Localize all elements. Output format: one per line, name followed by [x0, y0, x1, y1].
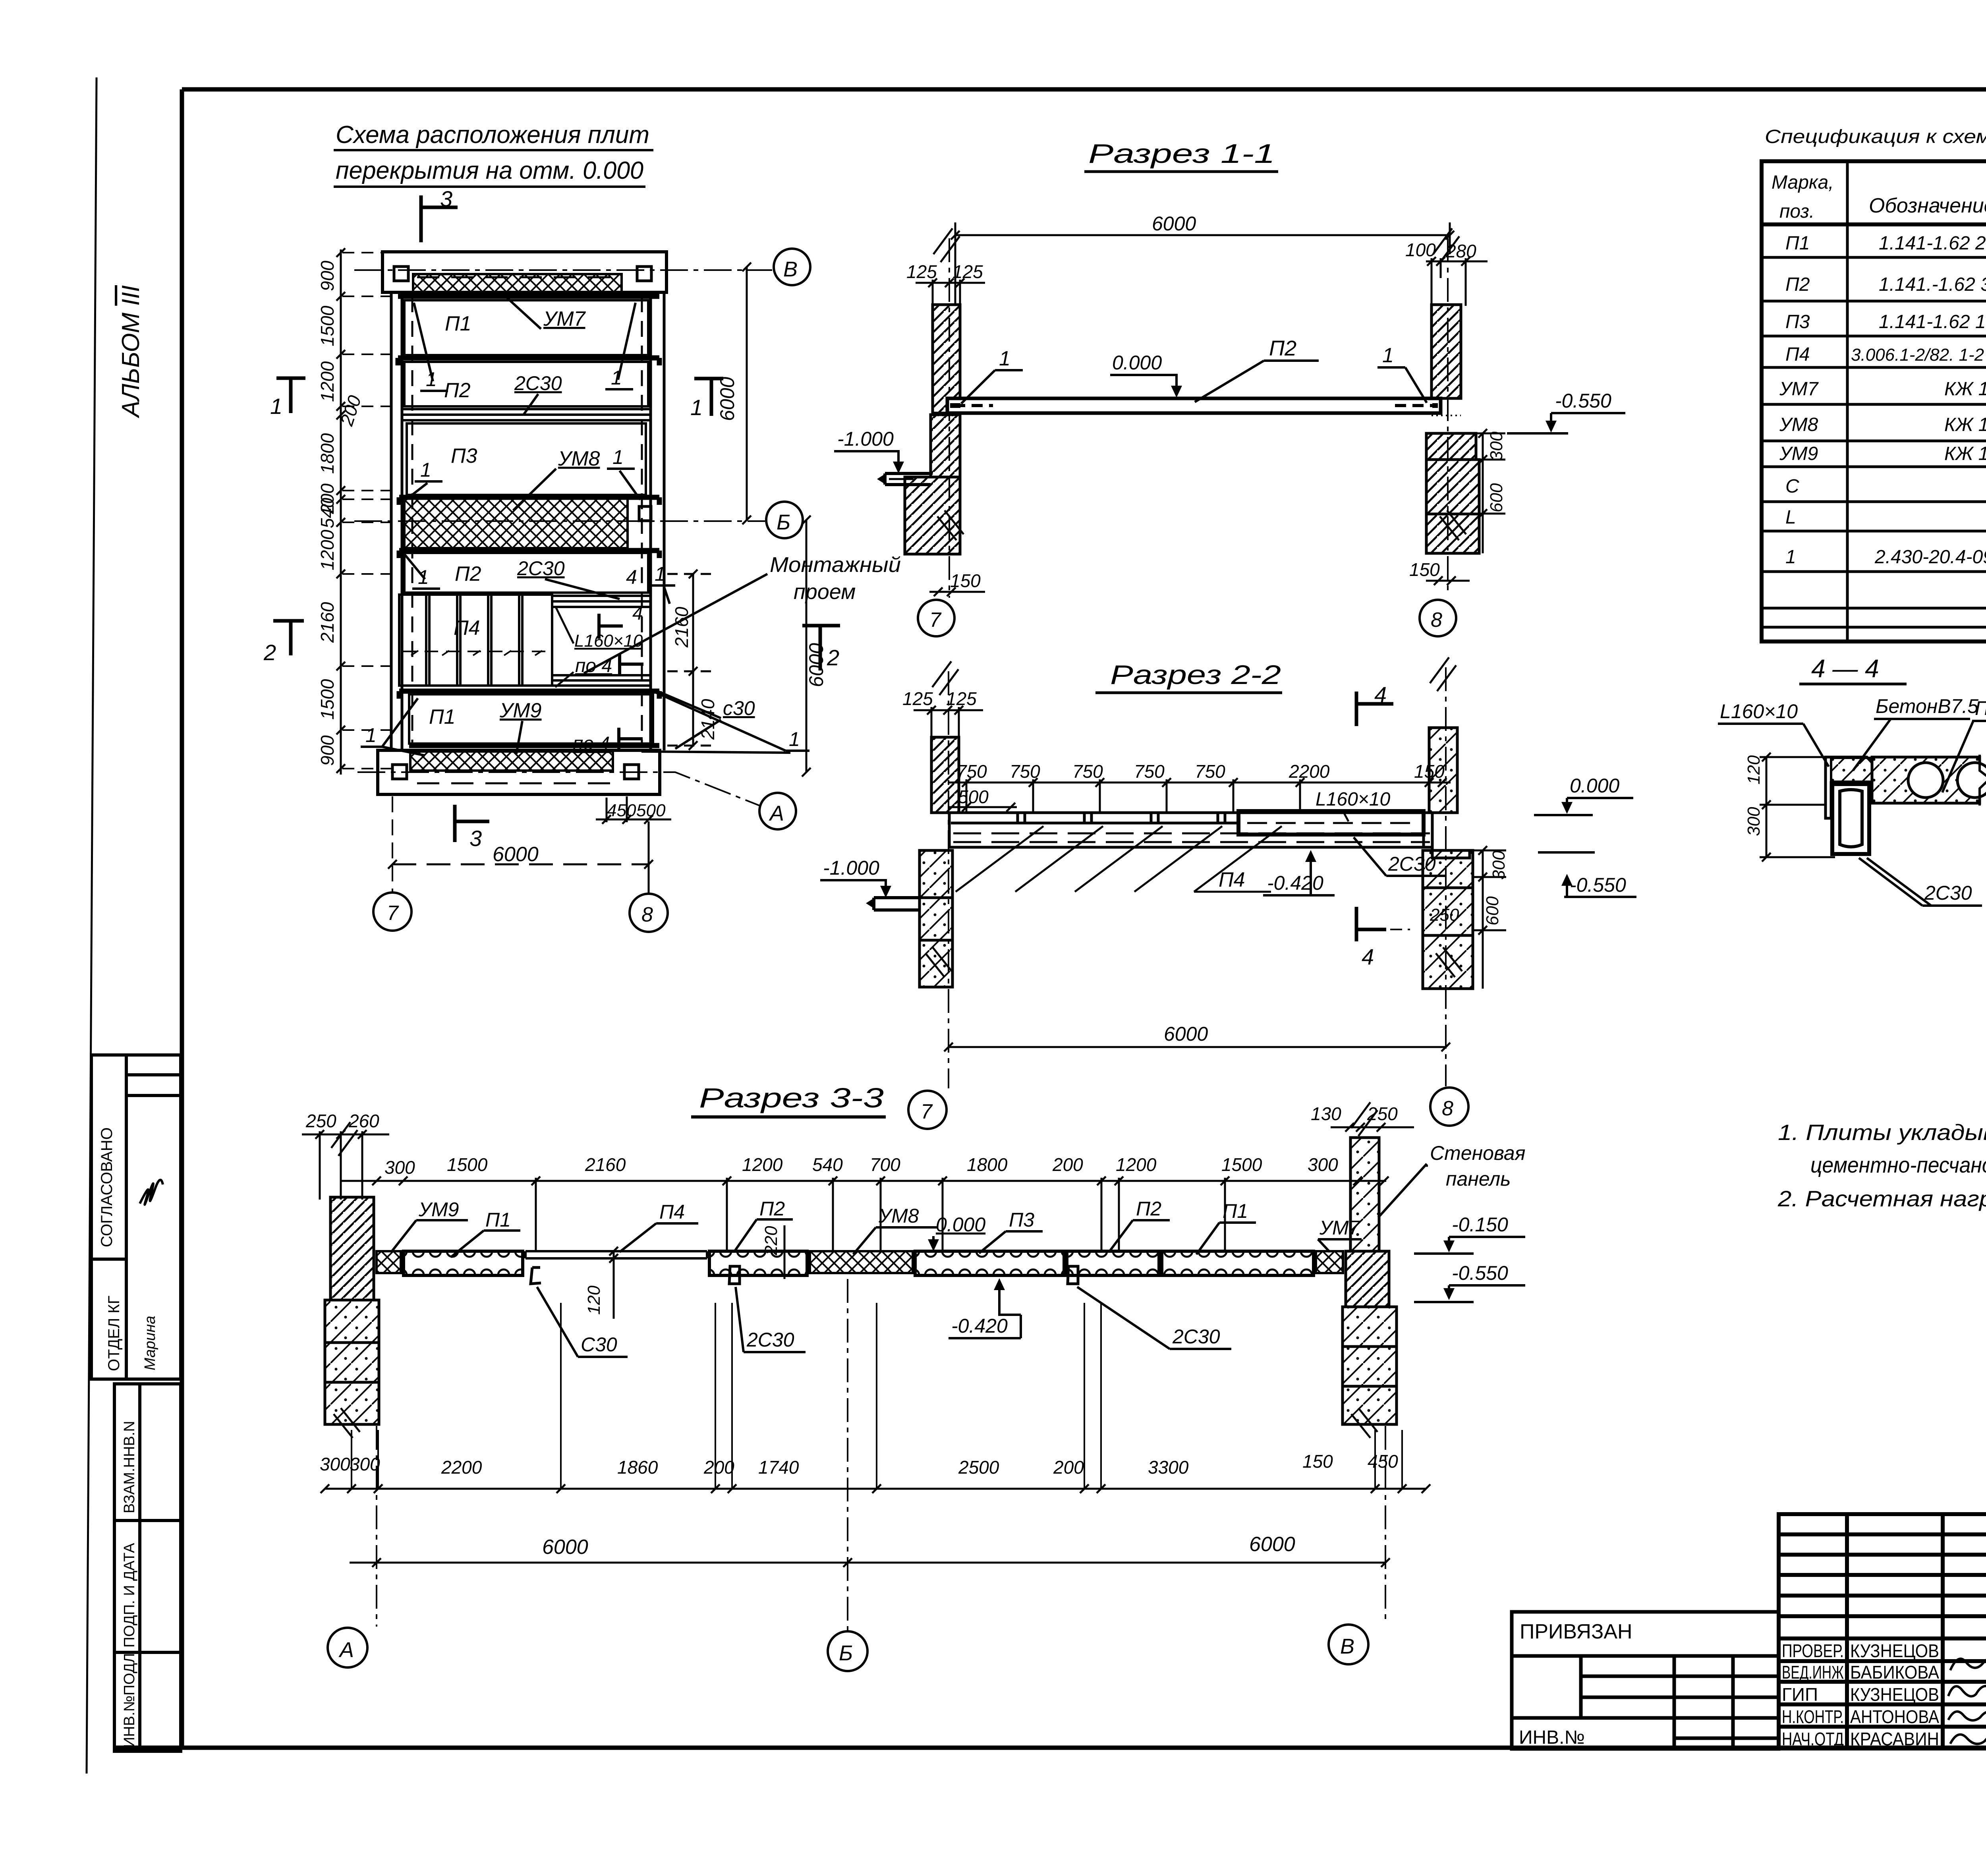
- sheet outer edge: [87, 77, 97, 1774]
- svg-text:КУЗНЕЦОВ: КУЗНЕЦОВ: [1850, 1684, 1939, 1705]
- axis circle B(Б): [828, 1631, 867, 1671]
- svg-text:ПОДП. И ДАТА: ПОДП. И ДАТА: [121, 1543, 138, 1648]
- svg-text:7: 7: [387, 902, 399, 925]
- svg-text:4: 4: [1374, 682, 1387, 707]
- L160 zone right: [1238, 811, 1424, 835]
- svg-text:П2: П2: [444, 379, 471, 402]
- svg-text:6000: 6000: [805, 643, 827, 687]
- svg-text:П1: П1: [429, 705, 456, 728]
- right foundation blocks: [1343, 1307, 1397, 1347]
- svg-text:4: 4: [632, 603, 643, 624]
- svg-text:1: 1: [365, 724, 377, 746]
- svg-text:УМ8: УМ8: [1779, 414, 1818, 435]
- svg-text:260: 260: [348, 1111, 379, 1131]
- right foundation blocks: [1426, 433, 1476, 460]
- svg-text:НАЧ.ОТД: НАЧ.ОТД: [1782, 1729, 1844, 1749]
- svg-text:540: 540: [317, 498, 338, 528]
- plate P2 outline: [404, 362, 648, 406]
- svg-text:8: 8: [641, 903, 653, 926]
- svg-text:300: 300: [1744, 807, 1764, 836]
- left foundation blocks: [920, 850, 952, 898]
- left wall upper: [931, 737, 959, 813]
- UM7 hatch strip: [413, 274, 622, 294]
- svg-text:4: 4: [626, 566, 637, 588]
- svg-text:УМ9: УМ9: [418, 1198, 459, 1221]
- dim chain 750s: [956, 761, 1445, 807]
- svg-text:1740: 1740: [758, 1457, 799, 1478]
- left wall centerline: [949, 238, 950, 598]
- plate P3 outline: [407, 423, 646, 495]
- svg-text:ИНВ.№: ИНВ.№: [1519, 1727, 1585, 1748]
- svg-text:150: 150: [1302, 1451, 1333, 1472]
- left wall panel: [330, 1197, 374, 1300]
- svg-text:300: 300: [350, 1454, 380, 1474]
- svg-text:2С30: 2С30: [746, 1329, 794, 1351]
- svg-text:П1: П1: [485, 1209, 511, 1231]
- svg-text:А: А: [338, 1638, 354, 1662]
- 4 mark top right: [597, 613, 598, 614]
- svg-text:перекрытия на отм. 0.000: перекрытия на отм. 0.000: [336, 157, 643, 184]
- svg-text:2С30: 2С30: [514, 372, 562, 394]
- svg-text:П1: П1: [1785, 233, 1810, 254]
- svg-text:150: 150: [1409, 559, 1440, 580]
- svg-text:КУЗНЕЦОВ: КУЗНЕЦОВ: [1850, 1640, 1939, 1661]
- svg-text:4: 4: [1362, 944, 1374, 969]
- svg-text:600: 600: [1483, 896, 1502, 925]
- svg-text:-0.420: -0.420: [1267, 872, 1323, 894]
- witness lines to bottom dims: [352, 1303, 1402, 1489]
- axis circle V(В): [774, 249, 810, 285]
- bottom dim chain: [320, 1451, 1398, 1478]
- svg-text:6000: 6000: [1152, 213, 1196, 235]
- svg-text:П2: П2: [1136, 1198, 1161, 1220]
- svg-text:1500: 1500: [1221, 1154, 1262, 1175]
- svg-text:1: 1: [655, 563, 666, 585]
- svg-text:1.141.-1.62 3000-01: 1.141.-1.62 3000-01: [1879, 274, 1986, 295]
- svg-text:Стеновая: Стеновая: [1430, 1142, 1525, 1164]
- svg-text:7: 7: [929, 609, 942, 632]
- spec table grid: [1762, 161, 1986, 641]
- album text: [117, 285, 145, 419]
- svg-text:1.141-1.62 2000-01: 1.141-1.62 2000-01: [1879, 233, 1986, 254]
- svg-text:3.006.1-2/82. 1-2 -1.0-060: 3.006.1-2/82. 1-2 -1.0-060: [1851, 345, 1986, 365]
- plate P3: [915, 1251, 1064, 1275]
- svg-text:П1: П1: [445, 312, 471, 335]
- channel symbol 2C30 mid: [729, 1266, 740, 1284]
- svg-text:750: 750: [956, 761, 987, 782]
- svg-text:2160: 2160: [317, 602, 338, 643]
- svg-text:1: 1: [612, 446, 624, 468]
- svg-text:Обозначение: Обозначение: [1869, 194, 1986, 217]
- axis circle 8: [1420, 600, 1456, 636]
- svg-text:220: 220: [761, 1226, 781, 1256]
- svg-text:-1.000: -1.000: [837, 428, 894, 450]
- svg-text:по 4: по 4: [573, 733, 610, 754]
- svg-text:В: В: [1340, 1634, 1354, 1658]
- svg-text:1: 1: [1382, 344, 1394, 367]
- svg-text:1: 1: [999, 347, 1010, 370]
- left foundation blocks: [931, 415, 960, 477]
- svg-text:по 4: по 4: [575, 655, 612, 676]
- svg-text:П4: П4: [1219, 868, 1245, 891]
- svg-text:450: 450: [1368, 1451, 1398, 1472]
- svg-text:С: С: [1785, 476, 1799, 497]
- privyazan annex: [1512, 1612, 1779, 1749]
- svg-text:Схема расположения плит: Схема расположения плит: [336, 121, 649, 149]
- level 0.000 arrow: [932, 1236, 935, 1248]
- svg-text:540: 540: [812, 1154, 843, 1175]
- svg-text:0.000: 0.000: [1112, 352, 1162, 374]
- right dim 2160 2140: [667, 570, 711, 750]
- angle L160x10 outline: [1826, 757, 1872, 818]
- svg-text:120: 120: [1744, 755, 1764, 784]
- svg-text:100: 100: [1405, 240, 1436, 260]
- svg-text:2200: 2200: [441, 1457, 482, 1478]
- svg-text:П4: П4: [454, 616, 480, 640]
- svg-text:1. Плиты укладывать по свежеу: 1. Плиты укладывать по свежеуложенному: [1778, 1120, 1986, 1145]
- svg-text:1.141-1.62 1000-01: 1.141-1.62 1000-01: [1879, 311, 1986, 332]
- svg-text:0.000: 0.000: [936, 1213, 985, 1236]
- plate P1 with cores: [404, 1251, 523, 1275]
- svg-text:панель: панель: [1446, 1168, 1511, 1190]
- svg-text:КРАСАВИН: КРАСАВИН: [1850, 1729, 1939, 1749]
- svg-text:1800: 1800: [967, 1154, 1008, 1175]
- svg-text:КЖ 15: КЖ 15: [1944, 443, 1986, 464]
- svg-text:750: 750: [1072, 761, 1103, 782]
- svg-text:300: 300: [320, 1454, 350, 1474]
- svg-text:А: А: [769, 802, 784, 825]
- svg-text:-0.420: -0.420: [951, 1315, 1008, 1337]
- axis circle A: [328, 1628, 367, 1667]
- svg-text:6000: 6000: [542, 1536, 588, 1559]
- UM7 hatch: [1316, 1251, 1343, 1273]
- svg-text:6000: 6000: [1249, 1533, 1295, 1556]
- svg-text:1200: 1200: [1116, 1154, 1157, 1175]
- dims 300 600 right: [1473, 846, 1506, 989]
- svg-text:3300: 3300: [1148, 1457, 1189, 1478]
- svg-text:1: 1: [420, 459, 431, 481]
- svg-text:П3: П3: [451, 444, 477, 468]
- svg-text:250: 250: [1430, 905, 1459, 925]
- svg-text:1500: 1500: [447, 1154, 488, 1175]
- svg-text:Разрез 1-1: Разрез 1-1: [1088, 139, 1275, 169]
- slab band with P4 planks: [949, 813, 1432, 847]
- main title block: [1779, 1514, 1986, 1748]
- channel 2C30 section: [1832, 784, 1869, 854]
- axis circle 7: [918, 600, 954, 636]
- svg-text:300: 300: [1487, 431, 1506, 461]
- svg-text:250: 250: [305, 1111, 336, 1131]
- P2 triple joint lines: [402, 409, 651, 420]
- svg-text:4 — 4: 4 — 4: [1811, 654, 1879, 683]
- svg-text:1200: 1200: [317, 361, 338, 402]
- svg-text:с30: с30: [723, 697, 755, 719]
- svg-text:1: 1: [1785, 547, 1796, 568]
- svg-text:8: 8: [1442, 1097, 1453, 1120]
- right wall below slab: [1346, 1251, 1389, 1307]
- mortar joint dots: [933, 415, 960, 416]
- UM8 hatch: [810, 1251, 913, 1273]
- dim 120/300 left: [1760, 753, 1835, 862]
- axis circle V(В): [1329, 1625, 1368, 1664]
- svg-text:Разрез 3-3: Разрез 3-3: [699, 1082, 884, 1113]
- svg-text:П2: П2: [759, 1198, 785, 1220]
- svg-text:2С30: 2С30: [1924, 882, 1972, 904]
- axis line B row: [354, 269, 772, 271]
- svg-text:1500: 1500: [317, 305, 338, 346]
- section marks 1 and 2 right: [694, 379, 723, 416]
- svg-text:750: 750: [1134, 761, 1165, 782]
- svg-text:П2: П2: [1785, 274, 1810, 295]
- svg-text:250: 250: [1367, 1103, 1398, 1124]
- svg-text:2. Расчетная нагрузка на пере: 2. Расчетная нагрузка на перекрытие 8кПа: [1777, 1186, 1986, 1211]
- svg-text:П2: П2: [455, 562, 481, 585]
- section marks 1 and 2 left: [276, 378, 305, 413]
- walls verticals: [391, 292, 664, 750]
- signature squiggle: [140, 1180, 163, 1204]
- plate P2' outline: [404, 553, 648, 593]
- svg-text:1: 1: [270, 394, 282, 419]
- svg-text:900: 900: [317, 261, 338, 291]
- svg-text:2160: 2160: [585, 1154, 626, 1175]
- axis circle A: [759, 793, 796, 829]
- svg-text:125: 125: [906, 261, 937, 282]
- svg-text:проем: проем: [794, 580, 856, 604]
- dim chain top: [384, 1154, 1338, 1178]
- ledge at -1.000: [885, 473, 933, 485]
- svg-text:3: 3: [440, 186, 452, 211]
- svg-text:1800: 1800: [317, 433, 338, 474]
- left wall upper: [933, 305, 960, 413]
- svg-text:цементно-песчаному раствору М5: цементно-песчаному раствору М50.: [1810, 1152, 1986, 1177]
- right wall upper: [1429, 728, 1457, 813]
- spec header text: [1772, 172, 1986, 222]
- svg-text:БАБИКОВА: БАБИКОВА: [1850, 1662, 1939, 1683]
- montage opening channel lines top: [552, 596, 651, 686]
- svg-text:Марина: Марина: [142, 1316, 158, 1370]
- svg-text:300: 300: [1308, 1154, 1338, 1175]
- svg-text:КЖ 15: КЖ 15: [1944, 414, 1986, 435]
- dims 300 600 right: [1476, 429, 1505, 553]
- svg-text:200: 200: [1052, 1154, 1083, 1175]
- mid hatch strip UM8: [404, 497, 628, 548]
- svg-text:П2: П2: [1269, 336, 1296, 360]
- svg-text:ОТДЕЛ КГ: ОТДЕЛ КГ: [105, 1296, 123, 1371]
- axis circle 8 plan: [630, 894, 668, 932]
- svg-text:130: 130: [1311, 1103, 1341, 1124]
- channel symbol C30: [531, 1267, 541, 1284]
- channel symbol 2C30 right: [1068, 1266, 1078, 1284]
- concrete fill zone: [1831, 758, 1872, 782]
- axis circle 8: [1430, 1088, 1468, 1126]
- right wall step below slab: [1424, 835, 1470, 858]
- plate P1': [1162, 1251, 1314, 1275]
- foundation bottom breaks: [937, 510, 964, 540]
- P4 slant leaders: [956, 826, 1282, 892]
- left dim chain: [336, 248, 345, 775]
- plate P2': [1067, 1251, 1159, 1275]
- svg-text:700: 700: [870, 1154, 900, 1175]
- svg-text:УМ7: УМ7: [1779, 379, 1819, 400]
- svg-text:УМ7: УМ7: [543, 307, 586, 330]
- svg-text:КЖ 15: КЖ 15: [1944, 379, 1986, 400]
- svg-text:1200: 1200: [742, 1154, 783, 1175]
- svg-text:Монтажный: Монтажный: [770, 553, 901, 577]
- lower margin stamp: [114, 1384, 181, 1751]
- svg-text:6000: 6000: [493, 843, 539, 866]
- svg-text:П3: П3: [1785, 311, 1810, 332]
- svg-text:300: 300: [1489, 850, 1509, 880]
- breaks bottom: [925, 947, 952, 977]
- svg-text:В: В: [783, 257, 798, 281]
- section mark 3 top: [421, 195, 458, 242]
- svg-text:Н.КОНТР.: Н.КОНТР.: [1782, 1706, 1844, 1727]
- svg-text:L160×10: L160×10: [1720, 700, 1798, 723]
- svg-text:-1.000: -1.000: [823, 857, 879, 879]
- svg-text:0.000: 0.000: [1570, 775, 1619, 797]
- left foundation blocks: [325, 1300, 379, 1343]
- svg-text:Марка,: Марка,: [1772, 172, 1834, 193]
- svg-text:-0.550: -0.550: [1570, 874, 1626, 896]
- svg-text:поз.: поз.: [1779, 201, 1814, 222]
- svg-text:1200: 1200: [317, 529, 338, 570]
- svg-text:200: 200: [1053, 1457, 1084, 1478]
- slab long dashes: [953, 833, 1430, 835]
- svg-text:120: 120: [584, 1285, 604, 1315]
- svg-text:2500: 2500: [958, 1457, 999, 1478]
- svg-text:L: L: [1785, 507, 1796, 528]
- right wall upper: [1432, 305, 1461, 398]
- svg-text:750: 750: [1195, 761, 1225, 782]
- svg-text:1: 1: [789, 728, 800, 750]
- svg-text:ИНВ.№ПОДЛ: ИНВ.№ПОДЛ: [121, 1653, 138, 1748]
- axis circle B(Б): [766, 502, 803, 538]
- svg-text:ГИП: ГИП: [1782, 1684, 1818, 1705]
- axis circle 7: [908, 1091, 947, 1129]
- right dim 6000 bottom: [802, 516, 811, 777]
- floor band: UM9 hatch: [377, 1251, 401, 1273]
- svg-text:Спецификация к схеме расположе: Спецификация к схеме расположения плит п…: [1765, 126, 1986, 147]
- plate P2: [709, 1251, 807, 1275]
- svg-text:П4: П4: [1785, 344, 1810, 365]
- svg-text:2: 2: [263, 640, 276, 665]
- section mark 4 bottom: [1356, 907, 1386, 941]
- svg-text:2: 2: [827, 645, 839, 670]
- right wall panel above: [1350, 1138, 1379, 1251]
- svg-text:280: 280: [1445, 241, 1476, 261]
- svg-text:АНТОНОВА: АНТОНОВА: [1850, 1706, 1939, 1727]
- svg-text:Б: Б: [777, 510, 790, 534]
- svg-text:П2: П2: [1975, 697, 1986, 719]
- svg-text:БетонВ7.5: БетонВ7.5: [1876, 695, 1978, 717]
- svg-text:ВЗАМ.ННВ.N: ВЗАМ.ННВ.N: [121, 1421, 138, 1513]
- svg-text:С30: С30: [581, 1333, 617, 1356]
- svg-text:УМ9: УМ9: [499, 699, 541, 722]
- svg-text:П4: П4: [659, 1201, 685, 1223]
- soglasovano table: [91, 1055, 181, 1379]
- svg-text:УМ8: УМ8: [558, 447, 600, 470]
- svg-text:L160×10: L160×10: [1316, 789, 1391, 810]
- svg-text:2С30: 2С30: [517, 557, 565, 580]
- svg-text:500: 500: [958, 786, 989, 807]
- svg-text:АЛЬБОМ III: АЛЬБОМ III: [117, 285, 145, 419]
- svg-text:П3: П3: [1009, 1209, 1034, 1231]
- right dim 6000 top: [742, 263, 751, 524]
- svg-text:2.430-20.4-090: 2.430-20.4-090: [1874, 547, 1986, 568]
- svg-text:УМ9: УМ9: [1779, 443, 1818, 464]
- axis verticals to circles: [377, 1279, 1385, 1631]
- svg-text:ВЕД.ИНЖ: ВЕД.ИНЖ: [1782, 1662, 1844, 1683]
- plate P1 outline: [404, 300, 648, 355]
- svg-text:УМ8: УМ8: [878, 1205, 919, 1227]
- svg-text:900: 900: [317, 735, 338, 766]
- top foundation strip: [383, 252, 667, 292]
- P4 thin band: [525, 1251, 707, 1258]
- svg-text:125: 125: [952, 261, 983, 282]
- axis circle 7 plan: [373, 893, 411, 931]
- svg-text:6000: 6000: [716, 377, 738, 421]
- svg-text:1: 1: [690, 395, 703, 420]
- svg-text:600: 600: [1487, 483, 1506, 512]
- svg-text:ПРИВЯЗАН: ПРИВЯЗАН: [1520, 1620, 1632, 1643]
- svg-text:-0.550: -0.550: [1555, 390, 1611, 412]
- svg-text:8: 8: [1431, 609, 1442, 632]
- svg-text:1500: 1500: [317, 679, 338, 720]
- svg-text:СОГЛАСОВАНО: СОГЛАСОВАНО: [98, 1127, 116, 1247]
- plate P1' outline: [409, 694, 653, 744]
- labels above band: [418, 1198, 1361, 1239]
- P4 plank strips: [399, 595, 552, 686]
- slab П2 cut with cores: [1872, 757, 1980, 803]
- spec rows text: [1779, 233, 1986, 568]
- svg-text:3: 3: [469, 826, 482, 851]
- svg-text:П1: П1: [1223, 1200, 1248, 1222]
- section mark 4 top: [1356, 692, 1393, 726]
- svg-text:2200: 2200: [1289, 761, 1330, 782]
- svg-text:200: 200: [703, 1457, 734, 1478]
- bottom foundation strip: [378, 750, 660, 794]
- svg-text:300: 300: [384, 1157, 415, 1178]
- svg-text:2140: 2140: [697, 699, 718, 740]
- svg-text:ПРОВЕР.: ПРОВЕР.: [1782, 1640, 1844, 1661]
- signatures in title block: [1950, 1658, 1986, 1670]
- slab P2: [947, 398, 1441, 413]
- svg-text:-0.150: -0.150: [1452, 1213, 1508, 1236]
- svg-text:6000: 6000: [1164, 1023, 1208, 1045]
- svg-text:Б: Б: [839, 1641, 853, 1665]
- svg-text:2160: 2160: [671, 607, 692, 648]
- axis line A row: [357, 772, 759, 806]
- svg-text:7: 7: [921, 1100, 933, 1123]
- plate labels: [429, 312, 481, 728]
- svg-text:125: 125: [902, 688, 933, 709]
- right foundation blocks: [1423, 850, 1473, 888]
- svg-text:Разрез 2-2: Разрез 2-2: [1110, 660, 1281, 690]
- row bearing thick lines: [398, 296, 659, 746]
- section mark 3 bottom: [455, 805, 489, 842]
- svg-text:450: 450: [607, 801, 636, 820]
- axis line B(Б) row: [354, 520, 765, 522]
- svg-text:1860: 1860: [617, 1457, 658, 1478]
- svg-text:-0.550: -0.550: [1452, 1262, 1508, 1284]
- UM9 hatch strip bottom: [410, 752, 613, 771]
- svg-text:2С30: 2С30: [1172, 1325, 1220, 1348]
